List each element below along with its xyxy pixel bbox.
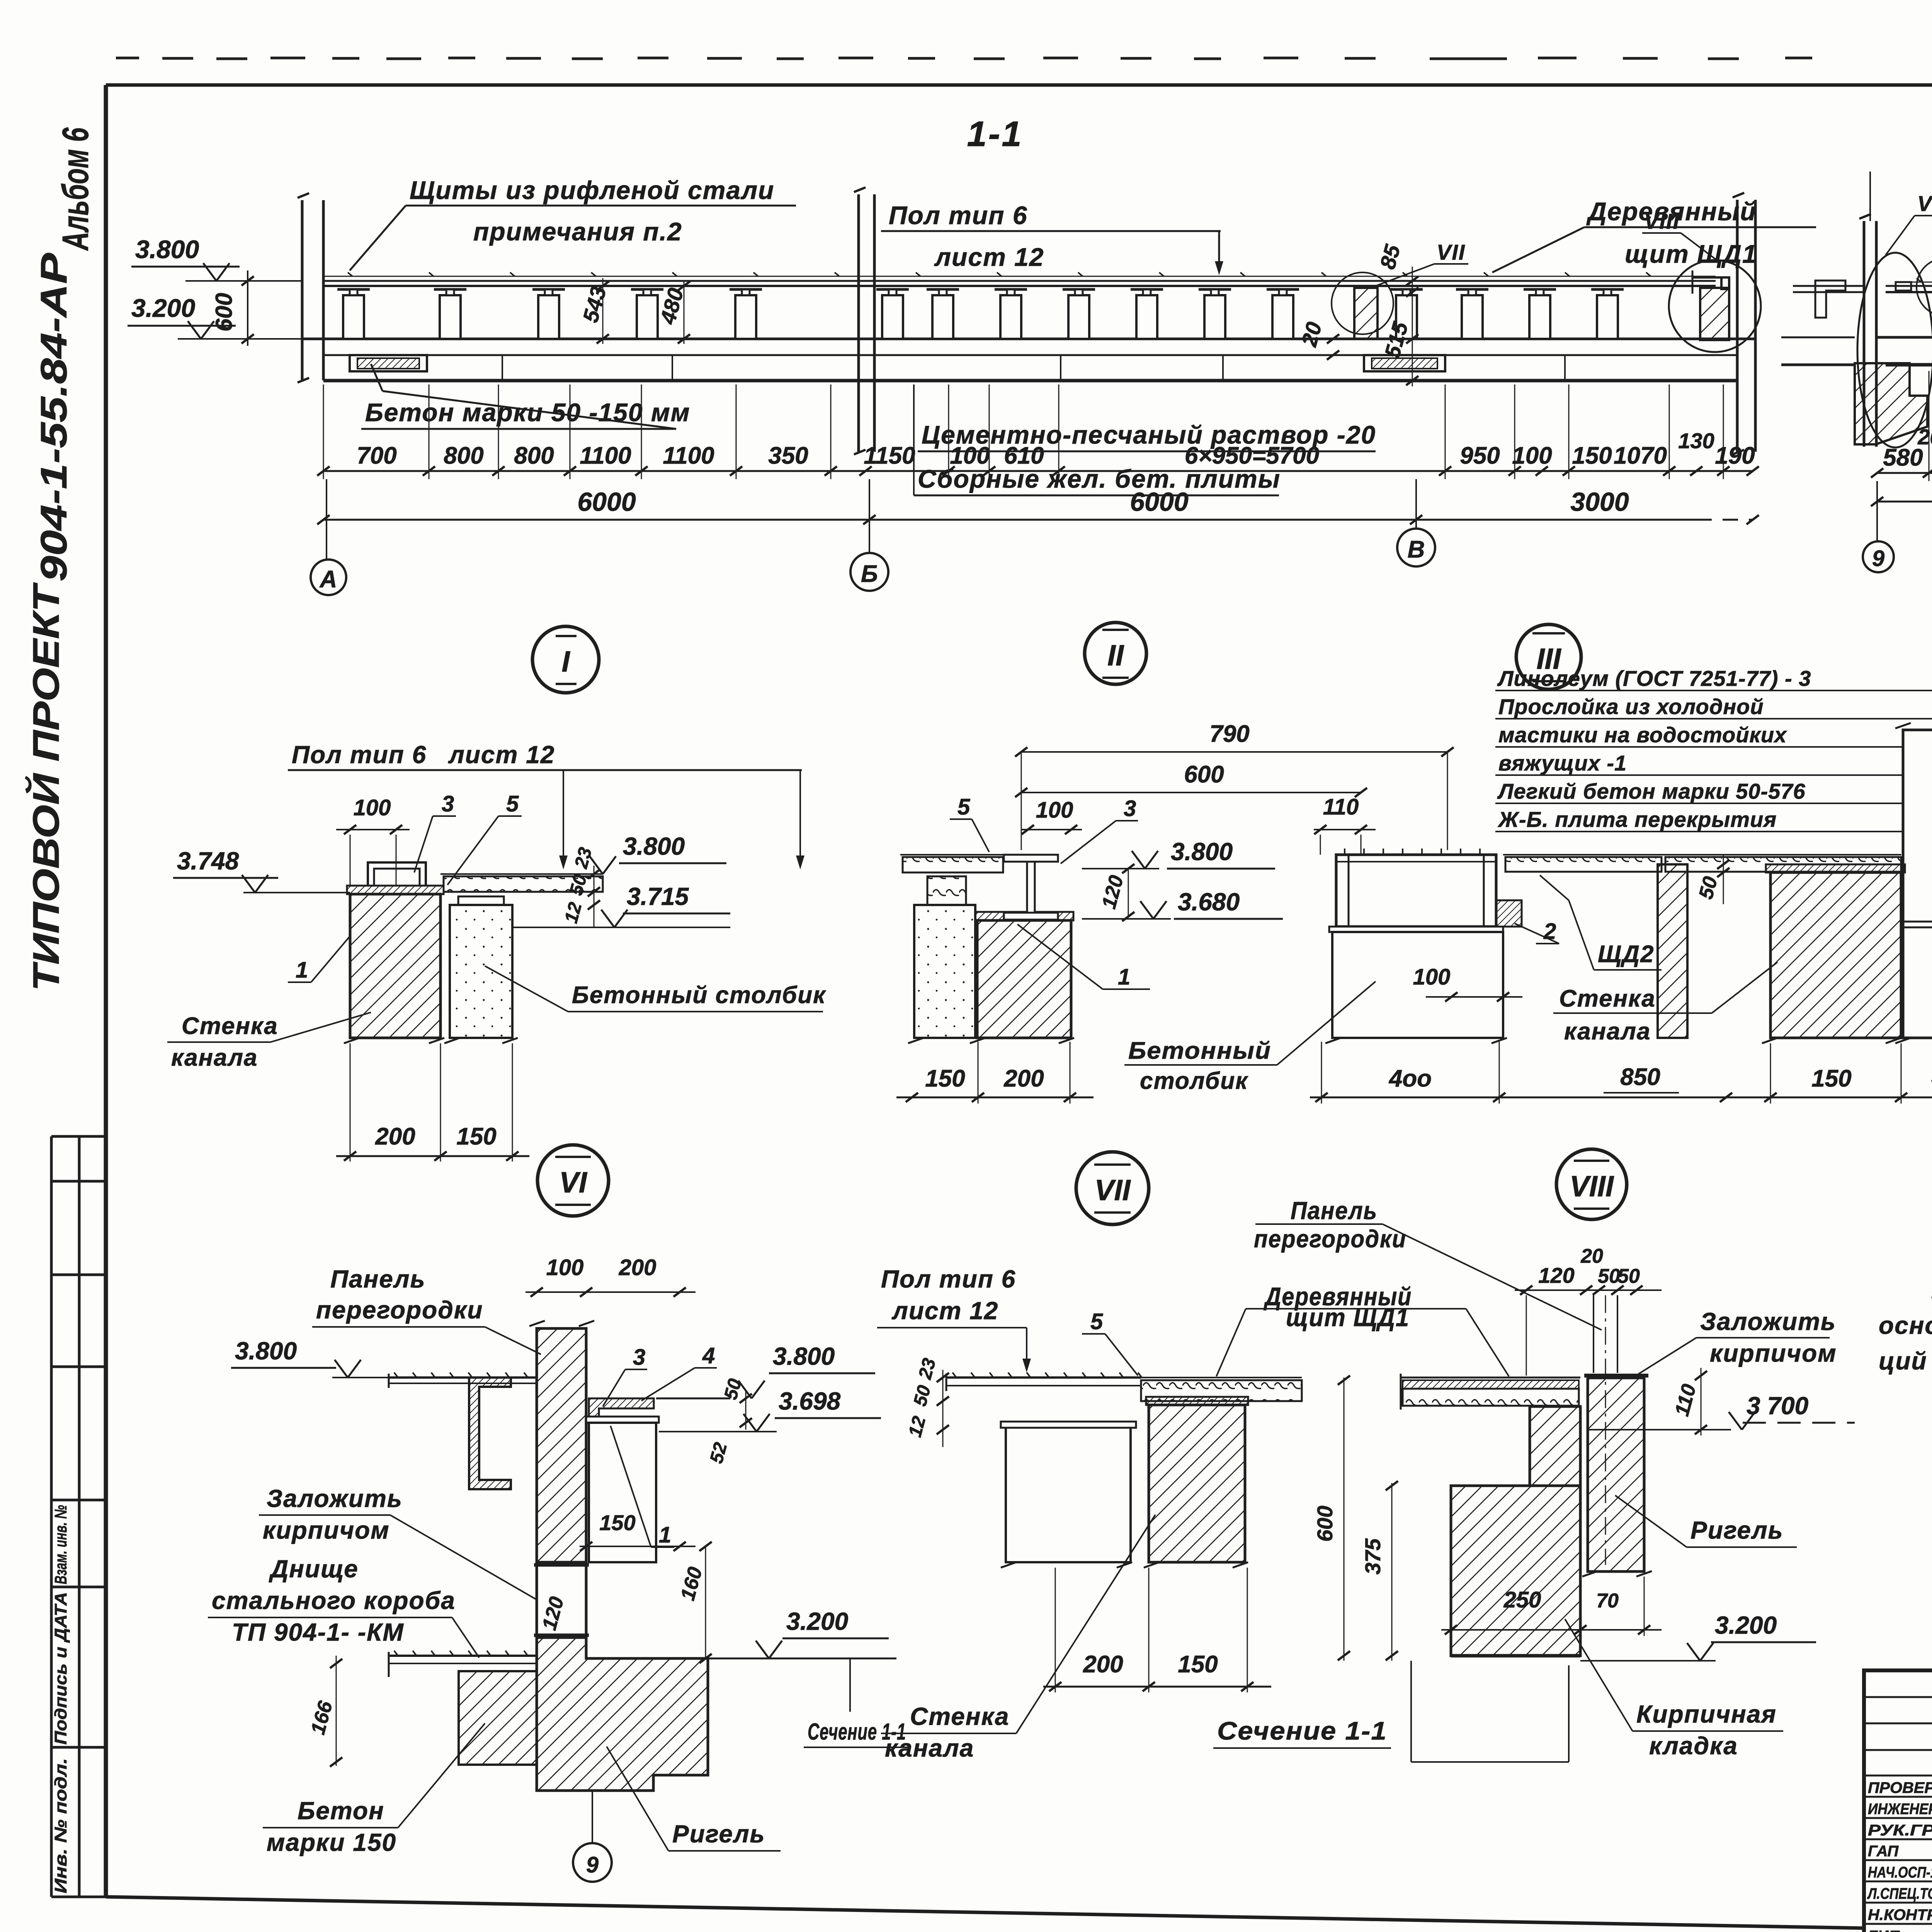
svg-text:52: 52	[706, 1440, 731, 1466]
detail VIII wood floor strip	[1401, 1374, 1580, 1410]
svg-text:Взам. инв. №: Взам. инв. №	[51, 1505, 70, 1584]
svg-text:9: 9	[586, 1852, 599, 1878]
svg-text:70: 70	[1596, 1590, 1619, 1612]
detail I dim 100 top	[336, 795, 410, 886]
svg-text:20: 20	[1580, 1245, 1603, 1267]
detail II rotated dim 120	[1098, 864, 1134, 921]
svg-text:Б: Б	[861, 561, 878, 587]
detail I level 3.748	[173, 847, 350, 893]
axis bubble 9 below detail VI	[573, 1791, 612, 1882]
detail VII label сечение 1-1	[1213, 1716, 1391, 1748]
section 1-1 right end column	[1733, 193, 1755, 454]
label VII with leader	[1376, 240, 1468, 286]
svg-text:190: 190	[1715, 442, 1755, 469]
svg-text:канала: канала	[171, 1044, 258, 1071]
detail VIII label заложить кирпичом	[1638, 1308, 1837, 1374]
svg-text:600: 600	[1184, 761, 1224, 788]
svg-text:Инв. № подл.: Инв. № подл.	[51, 1758, 70, 1893]
detail VII wood strip	[1141, 1378, 1302, 1401]
svg-text:4: 4	[702, 1343, 715, 1368]
svg-text:3.680: 3.680	[1178, 888, 1240, 916]
detail I concrete pedestal	[444, 896, 518, 1043]
svg-text:кладка: кладка	[1649, 1732, 1738, 1760]
detail VI rotated dim 166	[307, 1656, 342, 1767]
svg-text:Л.СПЕЦ.ТО: Л.СПЕЦ.ТО	[1867, 1885, 1932, 1902]
svg-text:100: 100	[1512, 442, 1552, 469]
svg-text:Подпись и ДАТА: Подпись и ДАТА	[51, 1592, 70, 1745]
detail I small stack dims 23 50 12	[561, 845, 600, 927]
detail I steel angle on wall	[368, 862, 426, 886]
detail VI central bottom mass	[537, 1638, 708, 1791]
detail VI left floor	[389, 1372, 537, 1388]
svg-text:НАЧ.ОСП-1: НАЧ.ОСП-1	[1868, 1864, 1932, 1881]
svg-text:Бетонный столбик: Бетонный столбик	[572, 982, 826, 1009]
svg-text:5: 5	[957, 794, 970, 820]
svg-text:200: 200	[619, 1255, 656, 1280]
section 1-1 steel deck	[325, 272, 1716, 286]
svg-text:700: 700	[357, 442, 396, 469]
svg-text:6×950=5700: 6×950=5700	[1185, 442, 1319, 469]
detail VI label заложить кирпичом	[259, 1485, 537, 1600]
svg-text:Ригель: Ригель	[1690, 1516, 1784, 1544]
detail II dim 600	[1015, 761, 1367, 797]
section 2-2 left corner assembly	[1781, 281, 1927, 444]
section 2-2 deck	[1886, 278, 1932, 292]
detail VII label стенка канала	[881, 1515, 1155, 1762]
detail VI label бетон марки 150	[263, 1723, 485, 1856]
main title block	[1864, 1670, 1932, 1932]
svg-text:Деревянный: Деревянный	[1586, 197, 1757, 226]
svg-text:100: 100	[354, 795, 391, 820]
section 1-1 corner assembly at detail VIII	[1692, 270, 1729, 340]
detail II wall	[970, 912, 1074, 1043]
detail VIII partition panel stubs above	[1594, 1295, 1617, 1373]
detail circles on section 2-2: VI I II III IV	[1917, 258, 1932, 316]
svg-text:350: 350	[768, 442, 808, 469]
detail I label стенка канала	[167, 1012, 371, 1071]
svg-text:перегородки: перегородки	[1254, 1225, 1406, 1253]
svg-text:50: 50	[1598, 1265, 1620, 1287]
svg-text:150: 150	[1178, 1651, 1218, 1678]
svg-text:Кирпичная: Кирпичная	[1636, 1700, 1777, 1728]
svg-text:150: 150	[599, 1510, 635, 1535]
detail VI central wall	[529, 1321, 594, 1562]
svg-text:3: 3	[1124, 796, 1136, 821]
svg-text:3.800: 3.800	[235, 1337, 297, 1365]
detail II bottom dims 150 200	[896, 1042, 1094, 1104]
detail marker circle VIII	[1556, 1149, 1627, 1219]
section 2-2 left column	[1859, 172, 1876, 447]
detail II level 3.800	[1082, 838, 1275, 869]
svg-text:50: 50	[910, 1383, 935, 1408]
svg-text:200: 200	[1083, 1651, 1123, 1678]
detail III label ЩД2 with leaders	[1540, 875, 1662, 970]
svg-text:800: 800	[514, 442, 554, 469]
svg-text:6000: 6000	[1130, 487, 1188, 517]
detail I label бетонный столбик	[485, 966, 826, 1012]
svg-text:110: 110	[1671, 1382, 1701, 1418]
detail VIII label кирпичная кладка	[1565, 1619, 1783, 1760]
title block signature rows	[1867, 1779, 1932, 1932]
svg-text:Ж-Б. плита перекрытия: Ж-Б. плита перекрытия	[1497, 807, 1777, 832]
svg-text:3.748: 3.748	[177, 847, 239, 875]
detail VIII level 3.200	[1580, 1611, 1816, 1661]
detail VII left steel floor	[946, 1372, 1142, 1391]
detail I wood floor strip	[440, 874, 603, 892]
svg-text:3.200: 3.200	[131, 294, 195, 322]
section 1-1 column axis B(Б)	[854, 187, 874, 454]
svg-text:Днище: Днище	[269, 1555, 359, 1583]
detail VI label ригель	[607, 1747, 781, 1851]
detail IV small wall piece far left	[1658, 864, 1687, 1038]
svg-text:20: 20	[1296, 320, 1326, 349]
svg-text:Панель: Панель	[1291, 1197, 1378, 1225]
detail I label 1	[288, 935, 351, 983]
notes paragraph	[1879, 1240, 1932, 1375]
detail II level 3.680	[1082, 888, 1283, 919]
svg-text:150: 150	[456, 1123, 496, 1150]
detail II pedestal left	[908, 876, 975, 1043]
concrete infill inset right	[1364, 355, 1445, 371]
section 1-1 hatched wall post at detail VII	[1354, 288, 1378, 339]
svg-text:ГИП: ГИП	[1868, 1928, 1900, 1932]
detail III bottom dim 400 850	[1310, 1042, 1777, 1104]
detail III steel box beam	[1329, 849, 1503, 932]
svg-text:щит ЩД1: щит ЩД1	[1286, 1303, 1410, 1332]
svg-text:Н.КОНТР: Н.КОНТР	[1868, 1906, 1932, 1923]
leader: бетон марки 50-150мм	[361, 364, 690, 429]
svg-text:200: 200	[375, 1123, 415, 1150]
section 2-2 dimension row 2	[1871, 470, 1932, 506]
section 1-1 floor slab	[302, 339, 1755, 381]
svg-text:950: 950	[1460, 442, 1500, 469]
section 2-2 dimension row 1	[1871, 371, 1932, 481]
section 1-1 dimension row 2	[317, 487, 1759, 524]
svg-text:ций ТП 904-1- -КМ.: ций ТП 904-1- -КМ.	[1879, 1347, 1932, 1375]
rotated dims 543 480	[578, 278, 690, 344]
svg-text:1: 1	[1118, 964, 1130, 990]
axis bubbles А Б В	[311, 479, 1435, 595]
left level mark 3.200 (section 1-1)	[128, 294, 302, 339]
detail VI steel channel left	[469, 1378, 511, 1489]
svg-text:лист 12: лист 12	[448, 741, 555, 769]
detail II floor strip left	[900, 855, 1004, 872]
svg-text:VI: VI	[1917, 191, 1932, 216]
svg-text:Ригель: Ригель	[672, 1820, 765, 1848]
svg-text:Стенка: Стенка	[1559, 985, 1656, 1012]
svg-text:Бетон: Бетон	[298, 1797, 384, 1825]
svg-text:Заложить: Заложить	[267, 1485, 403, 1512]
svg-text:3: 3	[633, 1345, 645, 1370]
detail VI rotated dim 160	[677, 1542, 712, 1663]
svg-text:РУК.ГР.: РУК.ГР.	[1868, 1822, 1932, 1839]
svg-text:кирпичом: кирпичом	[1710, 1339, 1837, 1367]
detail IV wall panel tall	[1895, 723, 1932, 1043]
detail VI label сечение 1-1	[804, 1719, 908, 1747]
detail I: пол тип 6 лист 12 leader	[288, 741, 804, 869]
leader: щиты из рифленой стали	[350, 176, 796, 270]
svg-text:лист 12: лист 12	[891, 1297, 998, 1325]
svg-text:150: 150	[925, 1065, 965, 1092]
svg-text:I: I	[561, 645, 570, 678]
svg-text:850: 850	[1620, 1064, 1660, 1090]
svg-text:Стенка: Стенка	[182, 1013, 278, 1039]
svg-text:200: 200	[1917, 425, 1932, 449]
detail marker circle II	[1085, 622, 1146, 684]
svg-text:85: 85	[1375, 242, 1405, 272]
svg-text:3.200: 3.200	[786, 1607, 848, 1635]
svg-text:вяжущих: вяжущих -1	[1498, 751, 1627, 775]
detail IV rotated dim 50	[1695, 855, 1730, 904]
detail I level 3.800	[590, 832, 726, 874]
detail VI concrete block left (бетон марки 150)	[459, 1671, 537, 1765]
svg-text:Прослойка из холодной: Прослойка из холодной	[1498, 694, 1764, 719]
detail VI brick infill (заложить кирпичом)	[534, 1562, 589, 1638]
detail IV hatched wall mass	[1762, 864, 1905, 1043]
detail marker circle I	[532, 626, 599, 693]
svg-text:6000: 6000	[577, 487, 636, 517]
detail circle VII marker on section 1-1	[1332, 272, 1393, 334]
detail VIII label ригель	[1615, 1495, 1797, 1547]
left stamp column	[51, 1136, 106, 1897]
svg-text:щит ЩД1: щит ЩД1	[1625, 240, 1757, 268]
detail IV bottom dims 150 350 30 200	[1754, 1043, 1932, 1104]
svg-text:Стенка: Стенка	[910, 1702, 1009, 1730]
detail VI label панель перегородки	[312, 1265, 541, 1354]
rotated dims 85 515 20 near axis В	[1296, 242, 1418, 386]
left level mark 3.800 (section 1-1)	[131, 235, 302, 281]
svg-text:3.800: 3.800	[1171, 838, 1233, 866]
leader: сборные жел.бет. плиты	[914, 384, 1281, 495]
svg-text:1070: 1070	[1614, 442, 1667, 469]
detail I wall (стенка канала)	[344, 886, 444, 1043]
svg-text:3.800: 3.800	[623, 832, 685, 860]
svg-text:лист 12: лист 12	[934, 243, 1044, 271]
svg-text:Панель: Панель	[330, 1265, 425, 1293]
svg-text:580: 580	[1883, 444, 1923, 471]
top torn dashed edge	[116, 58, 1932, 59]
label VIII with leader	[1642, 209, 1720, 263]
detail VIII rotated dim 110 and level 3.700	[1589, 1368, 1855, 1435]
detail VIII top dims 120 20 50 50	[1515, 1245, 1662, 1565]
labels VI I II III IV on section 2-2	[1886, 191, 1932, 269]
svg-text:3.200: 3.200	[1715, 1611, 1777, 1639]
svg-text:120: 120	[1538, 1263, 1574, 1287]
svg-text:1: 1	[296, 957, 308, 983]
detail III angle piece right	[1496, 900, 1522, 927]
vertical dims 600 375 between VII and VIII	[1313, 1376, 1398, 1661]
detail VIII brick pier (ригель)	[1582, 1376, 1652, 1577]
detail VII rotated stack 23 50 12	[905, 1356, 949, 1447]
svg-text:790: 790	[1209, 721, 1249, 747]
svg-text:кирпичом: кирпичом	[263, 1516, 390, 1544]
left margin rotated text: project name	[25, 128, 96, 991]
svg-text:5: 5	[506, 791, 519, 816]
svg-text:примечания п.2: примечания п.2	[473, 217, 682, 246]
detail VI label днище стального короба	[208, 1555, 479, 1658]
leader: деревянный щит ЩД1 (section 1-1)	[1492, 197, 1816, 272]
svg-text:800: 800	[444, 442, 483, 469]
break ellipse VI on section 2-2	[1857, 253, 1932, 447]
detail VI labels 3 4	[603, 1343, 717, 1406]
svg-text:130: 130	[1678, 429, 1714, 453]
svg-text:Пол тип 6: Пол тип 6	[292, 741, 427, 769]
axis bubbles 9 10 (top)	[1863, 481, 1932, 572]
detail VII label пол тип 6 лист 12	[877, 1265, 1031, 1372]
detail VI label 1	[611, 1426, 674, 1548]
material list text block	[1495, 666, 1932, 853]
svg-text:4оо: 4оо	[1388, 1065, 1432, 1092]
detail VII label 5	[1082, 1309, 1138, 1376]
svg-text:VI: VI	[559, 1166, 588, 1199]
detail II labels 5 100 3 110	[950, 794, 1376, 864]
detail VI level 3.200	[734, 1607, 889, 1658]
detail VII bottom dims 200 150	[1043, 1568, 1271, 1692]
svg-text:канала: канала	[885, 1734, 974, 1762]
detail III floor strips right with chevrons	[1503, 855, 1901, 872]
detail II dim 790	[1015, 721, 1454, 850]
svg-text:Линолеум (ГОСТ 7251-77) - 3: Линолеум (ГОСТ 7251-77) - 3	[1497, 666, 1811, 690]
detail I labels 3 and 5	[414, 791, 522, 885]
svg-text:3 700: 3 700	[1747, 1392, 1808, 1420]
detail VI top dims 100 200	[526, 1255, 696, 1297]
svg-text:200: 200	[1003, 1065, 1044, 1092]
detail VI rotated 50 and level 3.698	[659, 1376, 881, 1466]
svg-text:100: 100	[1413, 964, 1451, 990]
svg-text:мастики на водостойких: мастики на водостойких	[1498, 723, 1787, 747]
detail marker circle VI	[537, 1145, 609, 1216]
svg-text:ПРОВЕР.: ПРОВЕР.	[1868, 1779, 1932, 1796]
svg-text:канала: канала	[1564, 1018, 1651, 1045]
svg-text:5: 5	[1090, 1309, 1103, 1334]
svg-text:1100: 1100	[580, 442, 631, 469]
detail III label бетонный столбик	[1124, 981, 1376, 1094]
detail marker circle VII	[1076, 1152, 1149, 1225]
svg-text:600: 600	[211, 293, 237, 332]
svg-text:Альбом 6: Альбом 6	[55, 128, 96, 251]
svg-text:3.800: 3.800	[135, 235, 199, 264]
svg-text:VIII: VIII	[1570, 1170, 1614, 1203]
detail III pedestal	[1325, 932, 1507, 1043]
detail VII wall	[1144, 1397, 1248, 1568]
section 1-1 dimension row 1	[317, 384, 1759, 479]
detail III label 2	[1515, 919, 1559, 944]
svg-text:3.698: 3.698	[779, 1387, 841, 1415]
svg-text:ГАП: ГАП	[1868, 1843, 1899, 1860]
svg-text:ТИПОВОЙ ПРОЕКТ: ТИПОВОЙ ПРОЕКТ	[25, 582, 67, 991]
detail VI level 3.800 left	[231, 1337, 389, 1378]
detail VII pedestal	[1001, 1422, 1136, 1568]
svg-text:250: 250	[1503, 1587, 1541, 1612]
svg-text:23: 23	[915, 1356, 940, 1382]
svg-text:100: 100	[546, 1255, 584, 1280]
svg-text:ЩД2: ЩД2	[1598, 941, 1655, 968]
svg-text:Пол тип 6: Пол тип 6	[881, 1265, 1016, 1293]
detail I level 3.715	[512, 883, 730, 927]
concrete infill inset (бетон марки 50) left	[350, 355, 427, 371]
svg-text:610: 610	[1004, 442, 1044, 469]
leader: пол тип 6 лист 12 (section 1-1)	[881, 201, 1223, 275]
section 1-1 pedestals	[337, 289, 1624, 339]
svg-text:II: II	[1107, 639, 1124, 672]
svg-text:3.800: 3.800	[773, 1342, 835, 1370]
detail VIII label панель перегородки	[1254, 1197, 1602, 1330]
detail VIII dims 250 70	[1441, 1577, 1662, 1636]
svg-text:1100: 1100	[663, 442, 714, 469]
svg-text:стального короба: стального короба	[212, 1587, 456, 1614]
svg-text:166: 166	[307, 1698, 337, 1737]
detail VII label деревянный щит ЩД1	[1216, 1282, 1509, 1376]
vertical dim 600 left	[211, 270, 254, 346]
detail VI bottom floor left	[389, 1651, 537, 1677]
svg-text:2: 2	[1543, 919, 1556, 944]
svg-text:50: 50	[1617, 1265, 1640, 1287]
svg-text:150: 150	[1572, 442, 1612, 469]
svg-text:3000: 3000	[1570, 487, 1629, 517]
svg-text:9: 9	[1872, 546, 1884, 571]
svg-text:1150: 1150	[864, 442, 915, 469]
detail III dim 100	[1413, 964, 1522, 1002]
svg-text:Легкий бетон марки 50-576: Легкий бетон марки 50-576	[1497, 779, 1806, 803]
svg-text:3.715: 3.715	[627, 883, 689, 910]
detail VIII central mass	[1451, 1406, 1580, 1656]
svg-text:VII: VII	[1437, 240, 1465, 264]
detail VIII bottom bracket	[1411, 1661, 1569, 1762]
svg-text:Заложить: Заложить	[1700, 1308, 1836, 1335]
svg-text:1: 1	[659, 1522, 671, 1548]
detail circle VIII marker on section 1-1	[1669, 260, 1761, 352]
svg-text:1-1: 1-1	[967, 114, 1023, 154]
svg-text:Сечение 1-1: Сечение 1-1	[1217, 1716, 1387, 1745]
svg-text:150: 150	[1811, 1065, 1851, 1092]
svg-text:Щиты из рифленой стали: Щиты из рифленой стали	[410, 176, 774, 204]
svg-text:12: 12	[905, 1414, 930, 1439]
svg-text:ТП 904-1- -КМ: ТП 904-1- -КМ	[232, 1618, 404, 1646]
detail VI right angle and pedestal	[586, 1398, 730, 1562]
svg-text:VII: VII	[1095, 1174, 1131, 1207]
detail II steel I-beam	[1004, 855, 1058, 920]
svg-text:100: 100	[1036, 798, 1073, 823]
svg-text:543: 543	[578, 284, 611, 325]
svg-text:перегородки: перегородки	[316, 1296, 483, 1324]
svg-text:ИНЖЕНЕР: ИНЖЕНЕР	[1868, 1801, 1932, 1818]
svg-text:50: 50	[1695, 874, 1722, 901]
svg-text:100: 100	[950, 442, 990, 469]
svg-text:120: 120	[1098, 873, 1128, 911]
svg-text:160: 160	[677, 1565, 707, 1603]
svg-text:Пол тип 6: Пол тип 6	[889, 201, 1028, 230]
svg-text:904-1-55.84-АР: 904-1-55.84-АР	[33, 253, 75, 582]
detail III label стенка канала	[1553, 962, 1777, 1045]
svg-text:110: 110	[1323, 794, 1359, 820]
svg-text:столбик: столбик	[1140, 1068, 1248, 1094]
svg-text:Бетонный: Бетонный	[1128, 1037, 1271, 1064]
svg-text:12: 12	[561, 900, 586, 925]
svg-text:600: 600	[1313, 1506, 1337, 1542]
svg-text:основном комплекте чертежей ме: основном комплекте чертежей металлически…	[1879, 1311, 1932, 1339]
svg-text:В: В	[1408, 536, 1425, 563]
detail marker circle III	[1516, 624, 1581, 689]
section 1-1 column axis A	[298, 193, 323, 383]
detail VI dim 150	[580, 1510, 696, 1551]
section 2-2 floor slab	[1876, 337, 1932, 365]
leader: цементно-песчаный раствор	[918, 420, 1376, 451]
detail VI right lower floor line	[708, 1658, 896, 1712]
svg-text:375: 375	[1361, 1538, 1385, 1575]
svg-text:3: 3	[442, 791, 454, 816]
svg-text:марки 150: марки 150	[267, 1828, 396, 1856]
svg-text:А: А	[319, 566, 337, 593]
